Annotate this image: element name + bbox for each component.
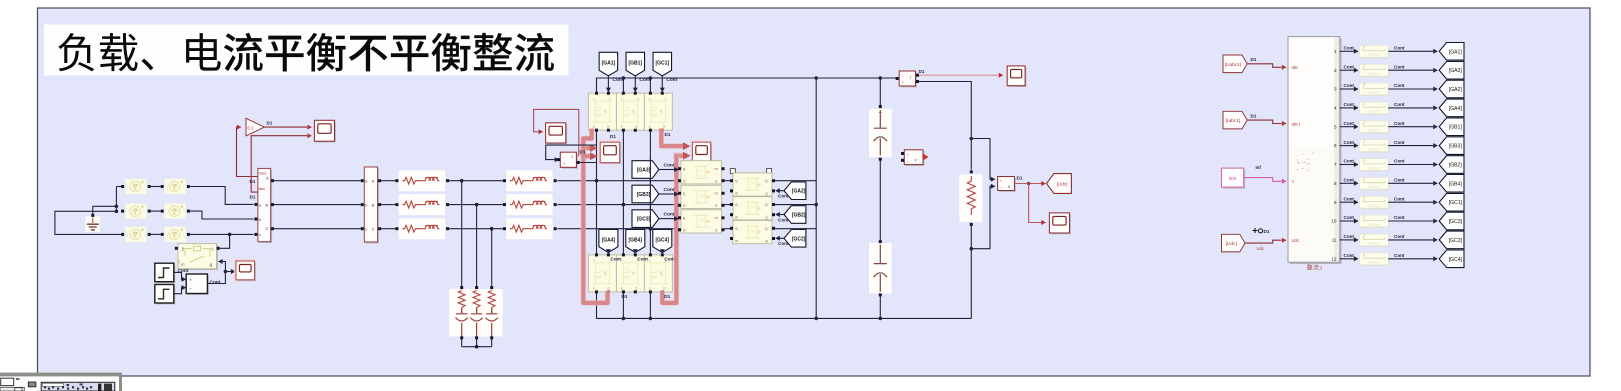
svg-text:D1: D1 (580, 150, 586, 155)
svg-text:[GA4]: [GA4] (1449, 106, 1463, 112)
wire to breaker (220, 234, 230, 248)
wire delay to goto tag (1388, 126, 1433, 128)
node (1027, 182, 1031, 186)
transport delay block 10 (1360, 215, 1390, 228)
wire M2 to series RL set1 phase B (381, 204, 396, 206)
node leg C phase tap (649, 227, 653, 231)
IGBT module lower arm C (644, 255, 672, 292)
svg-text:[GC2]: [GC2] (792, 236, 806, 242)
relational operator block (186, 274, 209, 295)
svg-text:Udc: Udc (1292, 238, 1299, 243)
wire constant to controller (1244, 178, 1282, 182)
svg-text:Cont: Cont (778, 241, 789, 246)
goto tag [GB4] (1439, 175, 1464, 193)
demux small block (560, 152, 578, 169)
wire delay to goto tag (1388, 220, 1433, 222)
wire phase B source to measurement b (190, 211, 254, 219)
AC source Vb1 (125, 203, 146, 218)
svg-text:o: o (649, 97, 651, 101)
svg-text:D: D (765, 202, 768, 207)
svg-text:abc1: abc1 (1292, 121, 1302, 126)
from tag [GB1] (626, 52, 645, 76)
scope Scope7 (1051, 214, 1071, 234)
svg-text:D: D (683, 227, 686, 232)
wire lower arm B to bus (622, 292, 624, 319)
svg-text:1e-06 s: 1e-06 s (1368, 223, 1379, 227)
shunt RC branch at x=462 (456, 291, 468, 337)
node (970, 137, 974, 141)
svg-text:C: C (372, 228, 375, 232)
node leg A phase tap (595, 179, 599, 183)
series RL branch A2 (506, 170, 553, 191)
svg-text:Cont: Cont (1344, 121, 1355, 126)
wire stack link B (725, 204, 732, 206)
series RL branch B1 (399, 194, 446, 215)
selection handle (730, 169, 735, 174)
svg-text:s: s (593, 286, 595, 290)
from tag [GA1] (599, 52, 618, 76)
svg-text:Cont: Cont (637, 256, 648, 261)
thin measurement wire to Scope5 (534, 109, 579, 156)
wire gate from tag (659, 218, 675, 220)
chopper stack left module C (681, 210, 722, 233)
port (678, 192, 681, 195)
load resistor (959, 175, 982, 223)
port (622, 253, 625, 256)
wire step2 to compare (174, 288, 183, 294)
wire leg A tap to demux block (546, 145, 597, 160)
from tag [GC3] (632, 210, 659, 228)
three-phase VI measurement block M1 (258, 168, 272, 243)
svg-text:Cont: Cont (664, 162, 675, 168)
svg-text:[GA3]: [GA3] (1449, 68, 1463, 74)
port (634, 253, 637, 256)
wire neutral vertical from phase A source (115, 187, 117, 212)
selection handle (767, 169, 772, 174)
svg-text:Cont: Cont (639, 77, 650, 83)
node (814, 76, 818, 80)
port (730, 203, 733, 206)
wire right stack D to DC rail C (775, 228, 816, 230)
node shunt tap C (490, 227, 494, 231)
wire shunt drop B (476, 205, 478, 287)
svg-text:Cont: Cont (1344, 102, 1355, 107)
wire RL set1 to set2 phase A (449, 180, 505, 182)
AC source Va1 (125, 179, 146, 194)
wire delay to goto tag (1388, 50, 1433, 52)
wire gate from tag (661, 249, 663, 253)
transport delay block 5 (1360, 121, 1390, 134)
from tag [GA2] (784, 182, 806, 200)
svg-text:1: 1 (910, 76, 912, 80)
svg-text:800: 800 (1229, 176, 1237, 181)
chopper stack right module A (733, 173, 772, 196)
port (161, 210, 164, 213)
svg-text:S: S (735, 178, 738, 183)
node leg C phase tap (649, 227, 653, 231)
svg-text:Cont: Cont (1394, 64, 1405, 69)
highlighted signal to scope input2 (583, 153, 590, 159)
wire delay to goto tag (1388, 145, 1433, 147)
transport delay block 7 (1360, 158, 1390, 171)
top DC bus (597, 78, 898, 93)
wire bus to capacitor 1 (879, 78, 881, 105)
svg-text:B: B (372, 203, 375, 207)
goto tag [GA3] (1439, 61, 1464, 79)
current measurement block (899, 71, 917, 87)
wire delay to goto tag (1388, 88, 1433, 90)
svg-text:[GB4]: [GB4] (628, 238, 642, 244)
svg-text:[GA4]: [GA4] (602, 238, 616, 244)
port (607, 92, 610, 95)
svg-text:1: 1 (571, 155, 573, 159)
svg-text:o: o (621, 97, 623, 101)
svg-text:g: g (210, 262, 213, 267)
port (161, 185, 164, 188)
wire gate from tag (779, 214, 784, 216)
from tag [GA3] (632, 161, 659, 179)
svg-text:1e-06 s: 1e-06 s (1368, 204, 1379, 208)
svg-text:1e-06 s: 1e-06 s (1368, 53, 1379, 57)
svg-text:D1: D1 (1264, 229, 1270, 234)
svg-text:5: 5 (1334, 124, 1337, 129)
svg-text:D1: D1 (1017, 176, 1023, 181)
wire leg C vertical (649, 132, 651, 254)
port (879, 105, 882, 108)
from tag [Udc] input (1222, 234, 1246, 252)
transport delay block 8 (1360, 177, 1390, 190)
port (649, 253, 652, 256)
port (595, 92, 598, 95)
wire to scope (225, 271, 231, 273)
svg-text:g: g (683, 191, 685, 196)
port (970, 170, 973, 173)
goto tag [GC4] (1439, 250, 1464, 268)
svg-text:E: E (635, 125, 638, 129)
svg-text:Cont: Cont (210, 280, 221, 286)
goto tag [Udc] (1047, 174, 1072, 194)
wire to source A1 (116, 186, 121, 188)
wire Vabc measurement to gain (237, 127, 258, 176)
port (121, 185, 124, 188)
svg-text:1e-06 s: 1e-06 s (1368, 166, 1379, 170)
svg-text:1e-06 s: 1e-06 s (1368, 242, 1379, 246)
port (649, 92, 652, 95)
from tag [Iabc1] (1223, 111, 1247, 129)
svg-text:2: 2 (182, 247, 185, 252)
wire gate from tag (779, 237, 784, 239)
svg-text:1e-06 s: 1e-06 s (1368, 72, 1379, 76)
svg-text:Iabc: Iabc (259, 187, 266, 191)
node (879, 317, 883, 321)
wire shunt bottom (476, 339, 478, 347)
bottom left taskbar preview overlay (0, 373, 122, 391)
port (678, 216, 681, 219)
svg-text:b: b (365, 203, 367, 207)
svg-text:Cont: Cont (1394, 215, 1405, 220)
title banner 负载、电流平衡不平衡整流 (44, 25, 569, 76)
wire gate from tag (607, 76, 609, 88)
wire demux output to leg (578, 162, 596, 164)
logging badge (1253, 228, 1258, 233)
scope Scope4 (235, 260, 255, 280)
wire bus M1 to M2 phase B (274, 204, 362, 206)
svg-text:10: 10 (1331, 219, 1337, 224)
svg-text:Cont: Cont (1344, 178, 1355, 183)
svg-text:o: o (637, 97, 639, 101)
port (634, 92, 637, 95)
wire Iabc measurement to scope1 input2 (251, 136, 307, 192)
port (661, 92, 664, 95)
svg-text:Cont: Cont (1394, 83, 1405, 88)
wire RL set1 to set2 phase B (449, 204, 505, 206)
svg-text:D: D (765, 178, 768, 183)
wire ground to neutral node (93, 206, 117, 214)
svg-text:Cont: Cont (1344, 159, 1355, 164)
port (361, 179, 364, 182)
svg-text:Cont: Cont (1394, 140, 1405, 145)
svg-text:D1: D1 (664, 294, 670, 299)
port (622, 92, 625, 95)
wire neutral to left rail (55, 211, 121, 234)
svg-text:D1: D1 (267, 120, 273, 125)
goto tag [GC3] (1439, 212, 1464, 230)
wire capacitor 2 to bottom bus (879, 296, 881, 318)
port (730, 179, 733, 182)
node (879, 76, 883, 80)
wire upper arm C to bus (649, 78, 651, 93)
port (175, 247, 178, 250)
wire Iabc1 to controller (1247, 120, 1281, 123)
svg-text:D1: D1 (610, 134, 616, 139)
transport delay block 4 (1360, 102, 1390, 115)
wire leg C over tags (649, 158, 651, 232)
svg-text:c: c (259, 233, 261, 237)
svg-text:0.1: 0.1 (248, 125, 254, 130)
wire between sources phase C (151, 233, 161, 235)
highlighted signal vertical run (583, 148, 607, 303)
wire phase A source to measurement a (190, 187, 254, 205)
wire RL set1 to set2 phase C (449, 228, 505, 230)
svg-text:o: o (593, 259, 595, 263)
svg-text:g: g (765, 238, 767, 243)
node shunt tap B (475, 203, 479, 207)
port (661, 253, 664, 256)
from tag [GB3] (632, 185, 659, 203)
svg-text:1e-06 s: 1e-06 s (1368, 91, 1379, 95)
svg-text:1e-06 s: 1e-06 s (1368, 129, 1379, 133)
svg-text:[Uabc1]: [Uabc1] (1225, 62, 1242, 68)
svg-text:6: 6 (1334, 143, 1337, 148)
svg-text:s: s (621, 125, 623, 129)
goto tag [GC1] (1439, 193, 1464, 211)
stray measurement block (904, 150, 924, 166)
wire between sources phase B (151, 210, 161, 212)
svg-text:Cont: Cont (1344, 83, 1355, 88)
svg-text:−: − (189, 286, 192, 291)
port (161, 233, 164, 236)
wire capacitor link (879, 161, 881, 240)
svg-text:Cont: Cont (778, 194, 789, 199)
bottom DC bus (597, 292, 972, 319)
wire right stack D to DC rail A (775, 180, 816, 182)
svg-text:9: 9 (1334, 200, 1337, 205)
from tag [GB4] (626, 230, 645, 253)
svg-text:E: E (607, 125, 610, 129)
svg-text:[GB4]: [GB4] (1449, 181, 1463, 187)
svg-text:S: S (715, 178, 718, 183)
svg-text:A: A (372, 180, 375, 184)
svg-text:Cont: Cont (778, 217, 789, 222)
svg-text:[GC2]: [GC2] (1449, 238, 1463, 244)
port (730, 227, 733, 230)
svg-text:[Iabc1]: [Iabc1] (1226, 118, 1240, 124)
node neutral 2 (115, 210, 119, 214)
svg-text:[GB1]: [GB1] (628, 61, 642, 67)
transport delay block 6 (1360, 139, 1390, 152)
svg-text:[GC4]: [GC4] (1449, 257, 1463, 263)
svg-text:[GB2]: [GB2] (1449, 163, 1463, 169)
svg-text:3: 3 (1320, 266, 1323, 271)
node shunt star (475, 345, 479, 349)
chopper stack left module A (681, 161, 722, 184)
wire shunt bottom (461, 339, 463, 347)
svg-text:D1: D1 (665, 132, 671, 137)
svg-text:D: D (765, 226, 768, 231)
svg-text:D: D (683, 178, 686, 183)
capacitor C1 (869, 109, 892, 157)
svg-text:12: 12 (1331, 256, 1337, 261)
wire delay to goto tag (1388, 69, 1433, 71)
gain block 0.1 (246, 118, 264, 136)
transport delay block 2 (1360, 64, 1390, 77)
svg-text:v: v (915, 157, 917, 162)
shunt RC filter bank (449, 289, 503, 337)
wire gate from tag (659, 193, 675, 195)
svg-text:8: 8 (1334, 181, 1337, 186)
svg-text:D1: D1 (250, 195, 256, 200)
wire current measurement to scope (919, 74, 998, 76)
from tag [GA4] (599, 230, 618, 253)
svg-text:[GC4]: [GC4] (655, 238, 669, 244)
breaker block (177, 244, 218, 270)
wire to voltage measurement + (971, 139, 991, 180)
svg-text:[GB1]: [GB1] (1449, 125, 1463, 131)
chopper stack right module C (733, 221, 772, 244)
wire bus set2 to bridge phase C (558, 228, 680, 230)
wire voltage measurement - (971, 186, 991, 248)
wire bus M1 to M2 phase C (274, 228, 362, 230)
svg-text:s: s (649, 286, 651, 290)
AC source Vc1 (125, 227, 146, 242)
transport delay block 9 (1360, 196, 1390, 209)
wire delay to goto tag (1388, 201, 1433, 203)
wire M2 to series RL set1 phase C (381, 228, 396, 230)
svg-text:Vabc: Vabc (259, 171, 267, 175)
svg-text:7: 7 (1334, 162, 1337, 167)
wire gate from tag (634, 76, 636, 88)
goto tag [GA1] (1439, 43, 1464, 61)
series RL branch A1 (399, 170, 446, 191)
svg-text:1: 1 (1334, 49, 1337, 54)
port (595, 253, 598, 256)
svg-text:Cont: Cont (1394, 234, 1405, 239)
IGBT module upper arm A (588, 93, 616, 130)
voltage measurement block (998, 177, 1016, 192)
wire stack link A (725, 180, 732, 182)
svg-text:Cont: Cont (1394, 102, 1405, 107)
svg-text:1: 1 (212, 247, 215, 252)
svg-text:Cont: Cont (1344, 196, 1355, 201)
wire gate from tag (659, 169, 675, 171)
svg-text:E: E (607, 286, 610, 290)
shunt RC branch at x=492 (486, 291, 498, 337)
svg-text:Cont: Cont (1394, 253, 1405, 258)
controller subsystem 整流3 (1288, 37, 1342, 264)
svg-text:Cont: Cont (1344, 215, 1355, 220)
capacitor C2 (869, 243, 892, 293)
wire phase C source to measurement c (190, 233, 254, 235)
step block Step2 (155, 285, 175, 305)
AC source Vc2 (164, 227, 185, 242)
from tag [GC4] (653, 230, 672, 253)
wire right stack D to DC rail B (775, 204, 816, 206)
transport delay block 11 (1360, 234, 1390, 247)
AC source Va2 (164, 179, 185, 194)
from tag [Uabc1] (1223, 55, 1247, 73)
svg-text:D1: D1 (1251, 57, 1257, 62)
wire bus set2 to bridge phase B (558, 204, 680, 206)
svg-text:o: o (649, 259, 651, 263)
svg-text:Inf: Inf (1256, 165, 1262, 170)
node leg B phase tap (622, 203, 626, 207)
transport delay block 3 (1360, 83, 1390, 96)
wire bus M1 to M2 phase A (274, 180, 362, 182)
svg-text:o: o (593, 97, 595, 101)
scope Scope6 (1009, 67, 1027, 87)
svg-text:S: S (735, 202, 738, 207)
svg-text:Cont: Cont (1344, 253, 1355, 258)
svg-text:m: m (181, 262, 185, 267)
IGBT module lower arm B (616, 255, 644, 292)
svg-text:Cont: Cont (613, 77, 624, 83)
svg-text:o: o (621, 259, 623, 263)
svg-text:[GA3]: [GA3] (637, 168, 651, 174)
wire DC+ down (970, 139, 972, 170)
ground symbol (86, 217, 101, 233)
wire Udc to controller (1245, 240, 1282, 243)
from tag [GB2] (784, 206, 806, 224)
svg-text:g: g (765, 214, 767, 219)
svg-text:D1: D1 (250, 179, 256, 184)
port (879, 240, 882, 243)
svg-text:1e-06 s: 1e-06 s (1368, 261, 1379, 265)
goto tag [GA2] (1439, 80, 1464, 98)
port (557, 158, 560, 161)
svg-text:Udc: Udc (1257, 246, 1264, 251)
svg-text:[GA2]: [GA2] (1449, 87, 1463, 93)
svg-text:Cont: Cont (1344, 46, 1355, 51)
DC rail vertical (815, 78, 817, 318)
port (254, 203, 257, 206)
svg-text:[GC1]: [GC1] (1449, 200, 1463, 206)
wire delay to goto tag (1388, 182, 1433, 184)
chopper stack right module B (733, 197, 772, 220)
scope Scope3 (692, 141, 712, 163)
wire delay to goto tag (1388, 164, 1433, 166)
svg-text:g: g (683, 166, 685, 171)
svg-text:g: g (683, 215, 685, 220)
